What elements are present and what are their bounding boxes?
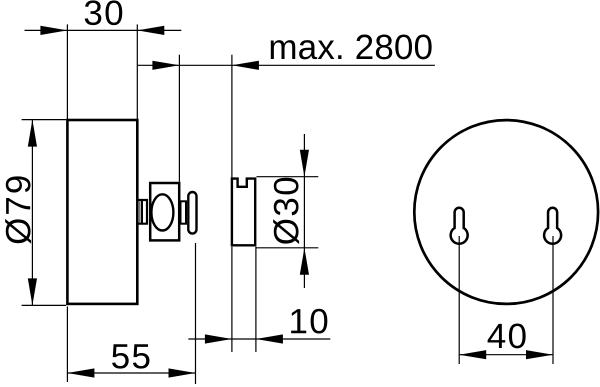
dimension 40 arrow right bbox=[526, 350, 553, 359]
dimension 55 arrow right bbox=[169, 368, 196, 377]
dimension 55 ext line right bbox=[195, 243, 197, 384]
dimension dia30 arrow bottom bbox=[300, 248, 309, 275]
collar inner edge bbox=[141, 200, 143, 224]
holder square (hook plate, side view) bbox=[150, 183, 179, 240]
holder right tab bbox=[181, 201, 187, 223]
front view circle bbox=[414, 120, 598, 304]
dimension max 2800 arrow left bbox=[152, 61, 179, 70]
dimension max 2800 ext line left bbox=[178, 55, 180, 182]
dimension 40 ext line left bbox=[458, 236, 460, 364]
dimension 10 ext line right bbox=[255, 247, 257, 352]
dimension max 2800 line bbox=[137, 64, 435, 66]
dimension 30 text bbox=[85, 0, 123, 25]
dimension dia30 line bbox=[303, 134, 305, 288]
dimension 55 line bbox=[67, 372, 195, 374]
dimension 55 text bbox=[112, 344, 149, 368]
dimension 40 line bbox=[459, 354, 553, 356]
dimension 55 ext line left bbox=[66, 307, 68, 383]
dimension dia30 ext line top bbox=[257, 176, 319, 178]
dimension dia30 text bbox=[273, 178, 299, 244]
dimension 30 arrow left bbox=[40, 26, 67, 35]
main body (side view cylinder) bbox=[67, 120, 137, 304]
dimension max 2800 ext line right bbox=[231, 55, 233, 178]
dimension 40 ext line right bbox=[552, 236, 554, 364]
dimension 40 arrow left bbox=[459, 350, 486, 359]
dimension 55 arrow left bbox=[67, 368, 94, 377]
dimension 30 ext line right bbox=[136, 24, 138, 119]
dimension 10 arrow left bbox=[205, 334, 232, 343]
dimension max 2800 text bbox=[271, 35, 432, 60]
dimension dia79 text bbox=[5, 176, 31, 243]
dimension max 2800 arrow right bbox=[232, 61, 259, 70]
dimension 30 ext line left bbox=[66, 24, 68, 119]
collar / cord outlet on body bbox=[138, 200, 147, 224]
holder ellipse bbox=[151, 194, 173, 230]
wall bracket (cross-section with cord notch) bbox=[232, 179, 255, 246]
keyhole left bbox=[451, 208, 468, 244]
dimension dia79 ext line top bbox=[22, 119, 67, 121]
dimension 10 arrow right bbox=[256, 334, 283, 343]
dimension 30 arrow right bbox=[137, 26, 164, 35]
dimension dia79 line bbox=[31, 120, 33, 306]
holder end pill bbox=[188, 192, 196, 234]
dimension dia30 ext line bottom bbox=[257, 247, 319, 249]
dimension 30 line bbox=[25, 29, 182, 31]
dimension dia30 arrow top bbox=[300, 150, 309, 177]
collar hidden edge bbox=[139, 201, 141, 222]
dimension 40 text bbox=[488, 324, 526, 349]
dimension 10 text bbox=[291, 309, 327, 334]
dimension dia79 arrow top bbox=[28, 120, 37, 147]
dimension 10 ext line left bbox=[231, 247, 233, 352]
dimension dia79 arrow bottom bbox=[28, 278, 37, 305]
keyhole right bbox=[544, 208, 561, 244]
dimension 10 line bbox=[188, 338, 330, 340]
dimension dia79 ext line bottom bbox=[22, 304, 67, 306]
